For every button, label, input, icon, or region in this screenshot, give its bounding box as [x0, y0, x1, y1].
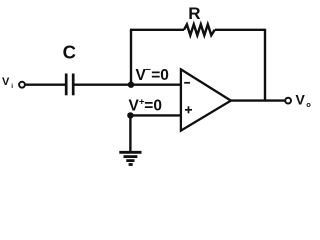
- wire to ground: [129, 115, 131, 152]
- wire op-amp output to terminal: [231, 99, 285, 101]
- op-amp U1: [181, 69, 231, 130]
- wire capacitor to op-amp inverting input: [75, 83, 182, 85]
- svg-text:o: o: [306, 100, 311, 109]
- svg-text:R: R: [188, 4, 200, 23]
- wire feedback right vertical: [264, 29, 266, 101]
- output terminal (open circle): [285, 98, 291, 104]
- label V+ = 0: [129, 97, 162, 115]
- svg-text:=0: =0: [151, 67, 169, 84]
- svg-text:V: V: [2, 76, 10, 88]
- wire non-inverting input: [130, 114, 181, 116]
- wire feedback left vertical: [130, 30, 132, 85]
- svg-text:i: i: [11, 83, 13, 90]
- resistor R: [184, 24, 215, 35]
- svg-text:V: V: [129, 98, 140, 115]
- svg-text:V: V: [296, 92, 306, 108]
- node junction dot (inverting input / feedback): [128, 82, 134, 88]
- ground: [119, 152, 141, 164]
- input terminal (open circle): [19, 82, 25, 88]
- label Vo: [296, 92, 312, 110]
- wire input terminal to capacitor: [25, 83, 65, 85]
- label V- = 0: [136, 65, 169, 85]
- node junction dot (non-inverting input / ground): [127, 112, 133, 118]
- wire feedback top left segment: [130, 29, 184, 31]
- wire feedback top right segment: [215, 29, 265, 31]
- svg-text:C: C: [63, 41, 76, 62]
- svg-text:=0: =0: [144, 98, 162, 115]
- label Vi: [2, 76, 13, 90]
- capacitor C: [66, 74, 73, 96]
